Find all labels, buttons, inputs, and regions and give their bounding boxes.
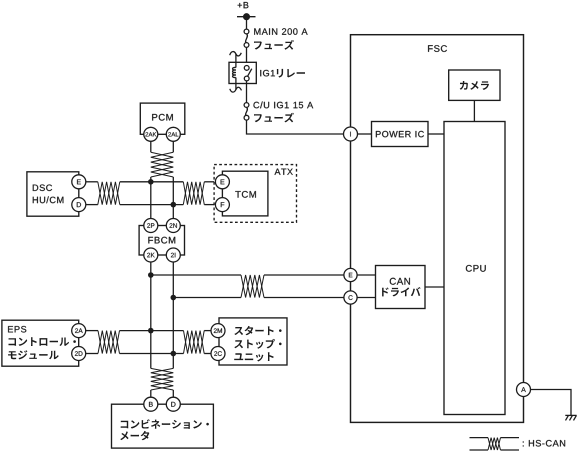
relay IG1 coil — [230, 52, 242, 56]
pin A of FSC — [517, 383, 531, 397]
ATX dashed box — [214, 165, 296, 223]
label CPU — [466, 265, 486, 272]
wire twist to 2M — [204, 330, 211, 332]
pin C of FSC — [344, 291, 357, 304]
wire fuse to pin I — [247, 120, 344, 134]
label POWER IC — [376, 131, 424, 137]
wire CAN-H row3 — [120, 330, 184, 332]
pin 2P of FBCM — [144, 219, 158, 233]
legend twisted pair symbol — [488, 438, 501, 450]
legend wire bottom-right — [501, 449, 520, 451]
wire bus right PCM to FBCM — [172, 177, 174, 219]
wire 2AL down — [172, 142, 174, 153]
legend wire bottom-left — [470, 449, 489, 451]
pin E of FSC — [344, 268, 357, 281]
pin E of TCM — [215, 175, 229, 189]
wire twist to pin C — [264, 297, 344, 299]
pin 2A of EPS — [72, 324, 86, 338]
twisted pair bus to TCM — [183, 182, 204, 205]
label stop (katakana) — [234, 339, 281, 349]
relay IG1 switch — [247, 69, 251, 77]
pin 2AL of PCM — [166, 127, 180, 141]
label MAIN 200 A — [254, 28, 307, 35]
label fuse (katakana) — [254, 113, 294, 123]
node +B label — [238, 2, 249, 8]
label meter (katakana) — [120, 431, 149, 440]
label HS-CAN — [523, 440, 565, 447]
wire bus right FBCM down — [172, 262, 174, 368]
wire twist to pin E — [264, 274, 344, 276]
junction bus-right row1 — [171, 202, 177, 208]
POWER IC box — [372, 122, 429, 147]
twisted pair bus to FSC — [241, 275, 264, 298]
ground symbol — [565, 414, 576, 416]
junction bus-right row2 — [171, 295, 177, 301]
twisted pair bus to meter — [151, 368, 174, 390]
module FBCM box — [139, 226, 184, 256]
label IG1 — [260, 70, 275, 77]
relay IG1 box — [229, 62, 256, 83]
label EPS — [8, 326, 26, 333]
wire bus left PCM to FBCM — [150, 177, 152, 219]
junction bus-left row1 — [148, 179, 154, 185]
wire DSC D to twist — [86, 204, 98, 206]
wire pin I to POWER IC — [358, 133, 372, 135]
pin 2C of start-stop unit — [211, 347, 225, 361]
label CAN — [390, 278, 410, 285]
pin F of TCM — [215, 198, 229, 212]
wire pin C to CAN driver — [358, 297, 376, 299]
label control (katakana) — [9, 337, 76, 346]
pin 2N of FBCM — [166, 219, 180, 233]
label TCM — [235, 191, 256, 198]
label C/U IG1 15 A — [254, 102, 314, 109]
wire CAN-H row1 — [120, 181, 184, 183]
pin 2AK of PCM — [144, 127, 158, 141]
wire camera to CPU — [473, 100, 475, 121]
module TCM box — [222, 171, 268, 216]
label FSC — [428, 45, 447, 52]
pin 2K of FBCM — [144, 248, 158, 262]
twisted pair DSC to bus — [98, 182, 120, 205]
CPU box — [444, 122, 505, 415]
pin I of FSC — [344, 127, 358, 141]
label module (katakana) — [8, 350, 59, 359]
label FBCM — [148, 237, 175, 244]
fuse C/U IG1 15 A — [246, 107, 248, 115]
wire +B down to MAIN fuse — [246, 17, 248, 32]
module FSC box — [351, 35, 524, 423]
battery node bar and junction — [237, 16, 256, 18]
wire POWER IC to CPU — [428, 133, 444, 135]
junction bus-left row3 — [148, 328, 154, 334]
twisted pair PCM to bus — [151, 152, 174, 177]
label combination (katakana) — [121, 419, 209, 429]
twisted pair EPS to bus — [98, 331, 120, 354]
junction bus-right row3 — [171, 351, 177, 357]
wire twist to TCM F — [204, 204, 215, 206]
wire pin E to CAN driver — [358, 274, 376, 276]
wire CAN-L row3 — [120, 353, 184, 355]
module DSC HU/CM box — [27, 172, 79, 216]
pin E of DSC — [72, 175, 86, 189]
pin 2D of EPS — [72, 347, 86, 361]
wire 2AK down — [150, 142, 152, 153]
wire EPS 2A to twist — [86, 330, 98, 332]
fuse MAIN 200 A — [246, 34, 248, 43]
wire EPS 2D to twist — [86, 353, 98, 355]
label relay (katakana) — [277, 69, 305, 78]
pin D of meter — [166, 397, 180, 411]
wire pin A to ground — [531, 390, 572, 416]
label DSC — [33, 185, 52, 192]
legend wire top-left — [470, 437, 489, 439]
label PCM — [152, 114, 173, 121]
wire CAN driver to CPU — [425, 286, 444, 288]
wire relay to C/U IG1 fuse — [246, 81, 248, 106]
combination meter box — [112, 404, 214, 448]
wire to pin D — [172, 390, 174, 397]
wire CAN-L row1 — [120, 204, 184, 206]
label ATX — [275, 169, 293, 175]
module EPS box — [2, 320, 79, 366]
wire twist to 2C — [204, 353, 211, 355]
start-stop unit box — [219, 318, 287, 365]
wire row2 CAN-L — [173, 297, 241, 299]
CAN driver box — [376, 266, 426, 309]
pin D of DSC — [72, 198, 86, 212]
label camera (katakana) — [460, 81, 489, 90]
pin 2M of start-stop unit — [211, 324, 225, 338]
label start (katakana) — [234, 326, 281, 335]
label driver (katakana) — [382, 287, 421, 296]
camera box — [449, 70, 500, 100]
junction bus-left row2 — [148, 272, 154, 278]
pin 2I of FBCM — [166, 248, 180, 262]
label HU/CM — [33, 196, 64, 203]
wire bus left FBCM down — [150, 262, 152, 368]
label unit (katakana) — [234, 352, 274, 361]
wire to pin B — [150, 390, 152, 397]
wire MAIN fuse to IG1 relay — [246, 47, 248, 65]
label fuse (katakana) — [254, 40, 294, 50]
wire DSC E to twist — [86, 181, 98, 183]
twisted pair bus to start-stop — [184, 331, 205, 354]
wire row2 CAN-H — [151, 274, 241, 276]
pin B of meter — [144, 397, 158, 411]
legend wire top-right — [501, 437, 520, 439]
module PCM box — [140, 103, 185, 134]
wire twist to TCM E — [204, 181, 215, 183]
